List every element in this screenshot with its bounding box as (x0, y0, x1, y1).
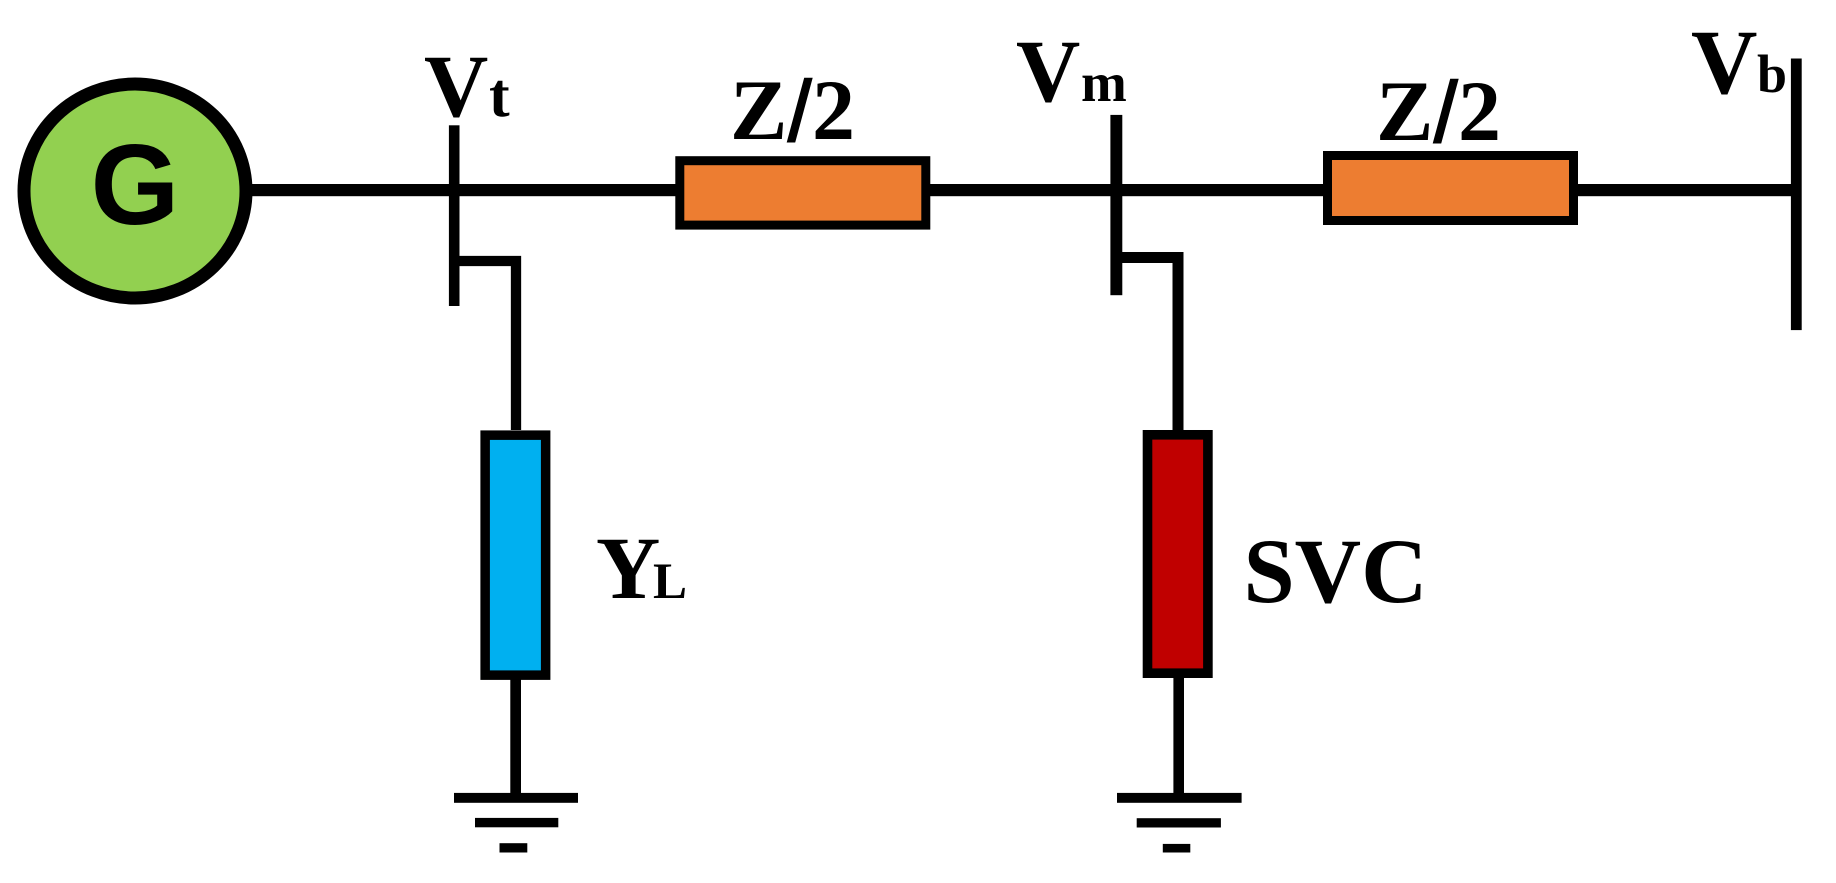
svg-text:2: 2 (1458, 63, 1501, 159)
svg-text:V: V (1691, 11, 1757, 113)
wire main horizontal from generator to bus Vb (240, 184, 1791, 196)
wire from SVC to ground (1173, 674, 1184, 793)
svg-text:Z: Z (730, 62, 787, 158)
bus Vt (449, 125, 460, 306)
svg-text:V: V (424, 38, 488, 136)
impedance Z/2 (left) (680, 161, 926, 225)
wire from YL to ground (510, 674, 521, 793)
impedance Z/2 (right) (1328, 156, 1574, 221)
svg-text:Z: Z (1376, 63, 1433, 159)
bus Vm (1110, 115, 1122, 295)
ground (left) (454, 793, 578, 803)
svg-text:Y: Y (596, 520, 660, 618)
bus Vb (1791, 59, 1802, 331)
svg-text:t: t (489, 62, 510, 130)
svg-text:SVC: SVC (1244, 520, 1428, 622)
wire elbow from bus Vt to YL (460, 261, 517, 430)
ground (right) (1117, 793, 1242, 803)
svg-text:L: L (653, 554, 687, 610)
svg-text:2: 2 (812, 62, 855, 158)
wire elbow from bus Vm to SVC (1122, 258, 1178, 431)
SVC compensator (1148, 435, 1208, 673)
svg-text:m: m (1081, 52, 1127, 113)
shunt admittance YL (485, 435, 546, 675)
svg-text:G: G (91, 122, 180, 249)
generator G1 (24, 84, 246, 298)
svg-text:b: b (1757, 44, 1787, 104)
svg-text:V: V (1016, 23, 1080, 121)
